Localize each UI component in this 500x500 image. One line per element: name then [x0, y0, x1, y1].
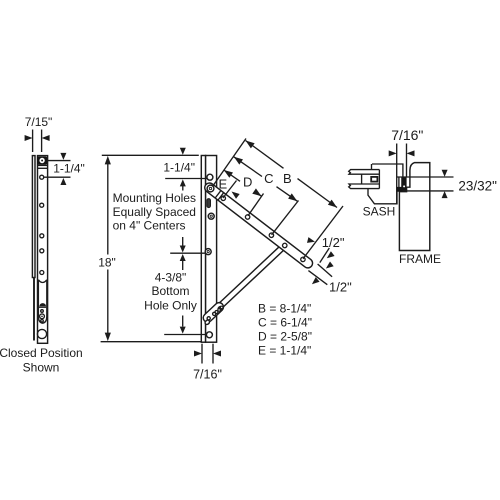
svg-text:E: E: [218, 177, 227, 192]
svg-text:1-1/4": 1-1/4": [53, 161, 85, 175]
frame profile: [399, 163, 429, 251]
support arm: [201, 242, 287, 324]
track rail strip: [201, 156, 205, 343]
pivot rivet: [207, 185, 214, 192]
dim C: [234, 157, 262, 177]
svg-text:23/32": 23/32": [458, 179, 497, 194]
sash arm: [203, 181, 315, 270]
pivot extension line: [213, 139, 247, 187]
svg-text:1-1/4": 1-1/4": [163, 161, 195, 175]
leader line first hole: [165, 178, 207, 180]
track hole 2: [208, 213, 214, 219]
ext line B: [303, 206, 343, 259]
svg-text:Hole Only: Hole Only: [144, 298, 197, 312]
svg-text:D = 2-5/8": D = 2-5/8": [258, 330, 312, 344]
svg-text:Bottom: Bottom: [151, 284, 189, 298]
top extension line: [102, 154, 199, 156]
dim 7/16 bottom: [201, 344, 203, 364]
sash screw boss: [371, 177, 377, 182]
svg-text:7/15": 7/15": [25, 115, 53, 129]
ext line C: [272, 201, 299, 235]
track bottom hole: [206, 332, 212, 338]
ext line E: [223, 181, 237, 199]
left inner channel: [38, 280, 46, 283]
left arm edge line lower: [33, 278, 35, 341]
shoe dark oval: [216, 304, 225, 313]
dim 1-1/4 left: [48, 160, 71, 162]
shoe rivet small 1: [213, 312, 216, 315]
dim half lower: [318, 264, 333, 277]
svg-text:Mounting Holes: Mounting Holes: [113, 191, 196, 205]
dim 23/32: [397, 176, 454, 178]
leader line middle hole: [170, 252, 206, 254]
track slot: [207, 199, 211, 208]
svg-text:18": 18": [98, 255, 116, 269]
sash lower part: [368, 189, 397, 204]
svg-text:Equally Spaced: Equally Spaced: [113, 205, 196, 219]
sash interlock bracket: [349, 170, 380, 175]
svg-text:SASH: SASH: [363, 205, 396, 219]
shoe foot bump: [204, 319, 210, 325]
svg-text:D: D: [243, 175, 252, 190]
svg-text:1/2": 1/2": [329, 279, 352, 294]
track top hole: [207, 174, 213, 180]
svg-text:Shown: Shown: [23, 360, 60, 374]
dim D: [224, 170, 240, 181]
dim 1-1/4 top middle: [180, 148, 186, 155]
left bar body: [38, 156, 48, 344]
svg-text:FRAME: FRAME: [399, 252, 441, 266]
svg-text:Closed Position: Closed Position: [0, 346, 83, 360]
svg-text:on 4" Centers: on 4" Centers: [113, 219, 186, 233]
sash profile: [372, 164, 403, 177]
hinge slot verticals: [398, 177, 400, 187]
svg-text:7/16": 7/16": [193, 367, 222, 381]
left rail strip: [32, 156, 35, 278]
bottom hole line: [182, 316, 184, 327]
left band: [38, 164, 48, 166]
hinge pocket black: [397, 177, 406, 191]
middle hole line: [182, 237, 184, 247]
shoe foot hole: [207, 317, 210, 320]
track bar: [206, 156, 217, 343]
left bottom hole: [37, 329, 46, 338]
leader line bottom hole: [164, 334, 207, 336]
dim 18 line: [107, 158, 109, 255]
left shoe rivets: [41, 310, 44, 313]
left holes: [40, 175, 44, 179]
svg-text:B = 8-1/4": B = 8-1/4": [258, 302, 311, 316]
svg-text:7/16": 7/16": [391, 127, 423, 143]
svg-text:E = 1-1/4": E = 1-1/4": [258, 344, 311, 358]
svg-text:1/2": 1/2": [322, 235, 345, 250]
svg-text:4-3/8": 4-3/8": [155, 270, 187, 284]
svg-text:C: C: [264, 171, 273, 186]
ext line D: [248, 194, 264, 216]
dim half upper: [307, 237, 316, 245]
svg-text:B: B: [283, 171, 292, 186]
shoe pad: [201, 301, 225, 324]
left pivot housing: [37, 157, 47, 165]
dim B: [246, 141, 284, 169]
bottom extension line: [101, 341, 206, 343]
shoe rivet small 2: [215, 311, 218, 314]
svg-text:C = 6-1/4": C = 6-1/4": [258, 316, 312, 330]
track hole 3: [205, 249, 211, 255]
left shoe cap: [39, 303, 46, 306]
